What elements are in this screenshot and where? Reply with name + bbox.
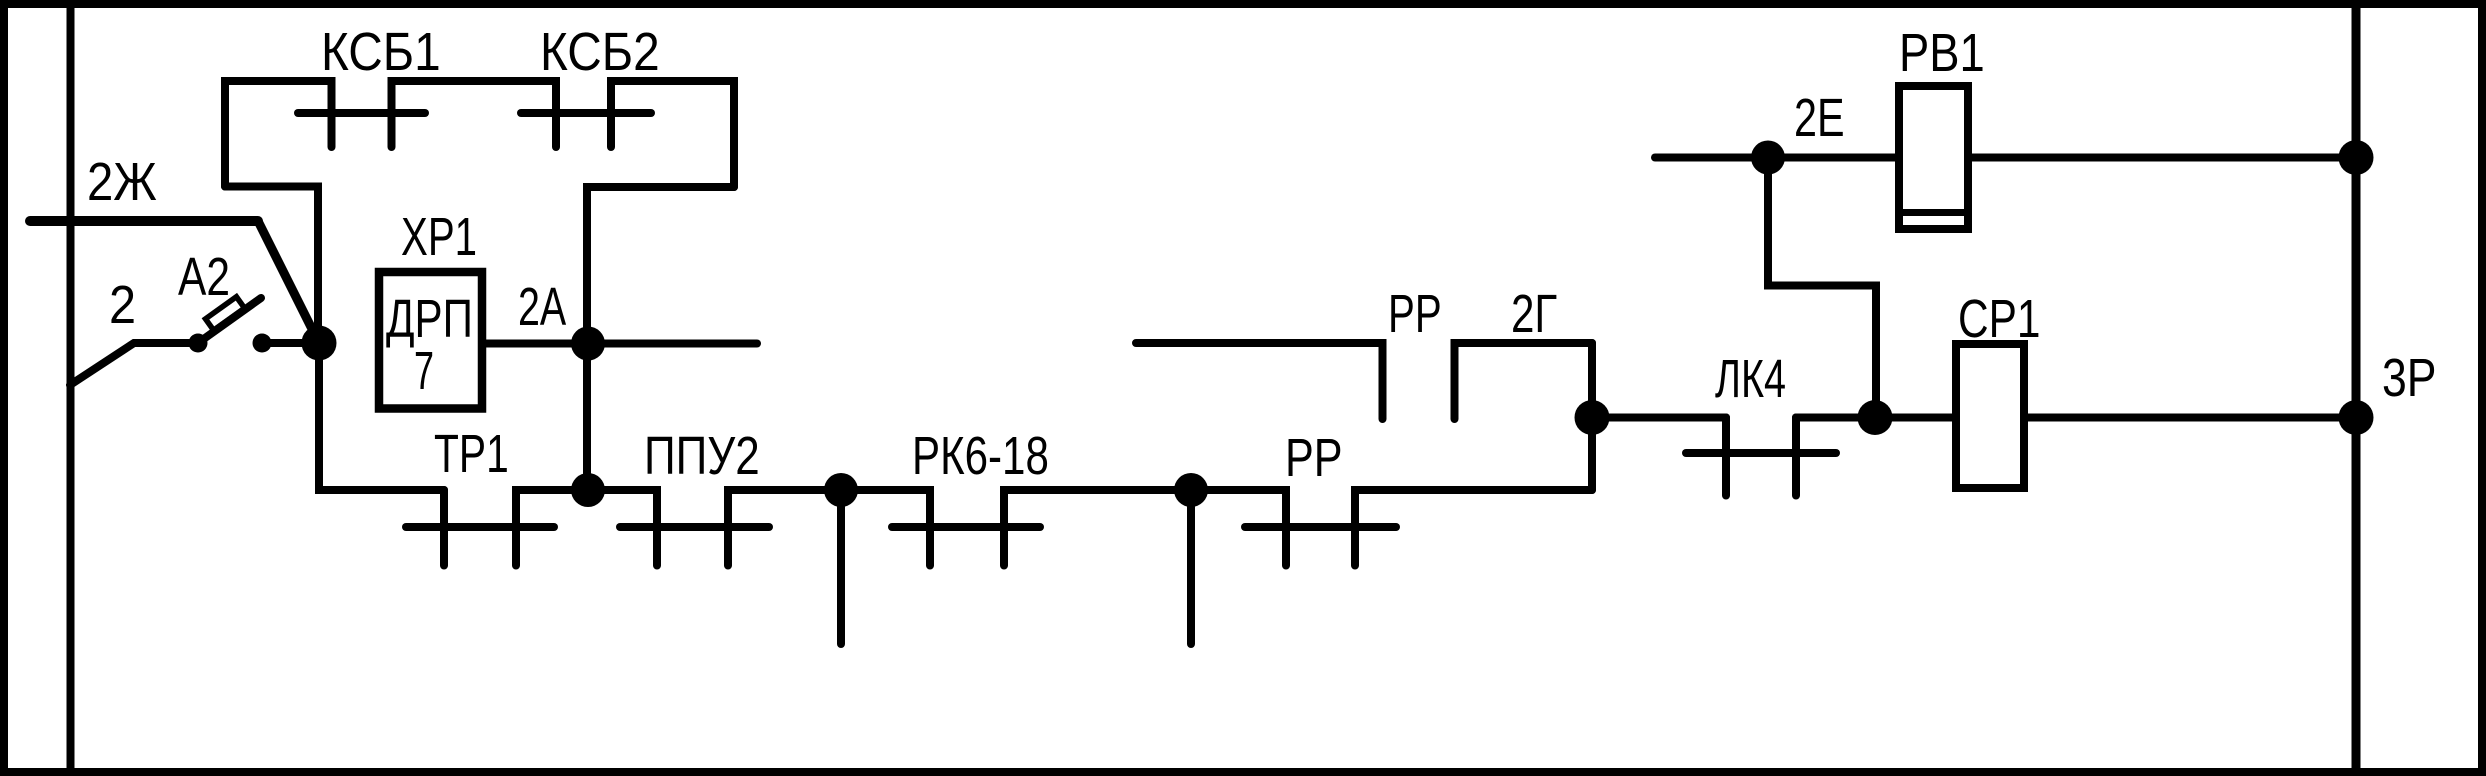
wire: node to СР1 <box>1875 414 1956 422</box>
contact РК6-18 rail and left bar <box>841 490 930 566</box>
contact ППУ2 rail from node and left bar <box>588 490 657 566</box>
node ППУ2/РК6-18 <box>824 473 858 507</box>
svg-text:РВ1: РВ1 <box>1899 22 1985 83</box>
svg-text:2Е: 2Е <box>1794 88 1845 149</box>
wire: ЛК4 to node <box>1796 414 1875 422</box>
contact ЛК4 right bar <box>1792 418 1800 496</box>
contact ППУ2 midline <box>620 523 769 531</box>
wire: diagonal from 2Ж to node <box>258 221 319 343</box>
contact РР top left rail and bar <box>1136 343 1383 419</box>
svg-text:РР: РР <box>1285 429 1343 489</box>
node ЛК4/СР1 <box>1858 400 1893 435</box>
node 3Р <box>2339 400 2374 435</box>
svg-text:А2: А2 <box>178 247 230 307</box>
svg-text:ТР1: ТР1 <box>434 425 509 485</box>
svg-text:2Г: 2Г <box>1511 284 1557 344</box>
wire: right bus vertical 3Р rail <box>2352 8 2361 768</box>
contact РК6-18 right bar and rail <box>1004 490 1191 566</box>
svg-text:3Р: 3Р <box>2382 348 2436 408</box>
wire: jog from node 2Е down to ЛК4 node <box>1768 158 1876 418</box>
svg-text:РР: РР <box>1388 284 1442 344</box>
coil РВ1 box <box>1899 86 1968 229</box>
wire: vertical from node down to bottom rail <box>319 343 444 490</box>
wire: bridge right step down to node 2А <box>587 187 734 344</box>
contact РР top right bar and 2Г rail <box>1455 343 1593 419</box>
wire: switch right stub <box>262 339 310 347</box>
wire: riser 2Г rail junction <box>1588 343 1596 490</box>
wire: left bus vertical <box>67 8 75 768</box>
wire 2Е horizontal left stub <box>1655 154 1899 162</box>
wire: vertical through node 2А down to bottom rail <box>583 344 591 490</box>
switch dot left <box>189 334 208 353</box>
svg-text:2: 2 <box>109 274 136 335</box>
switch A2 breaker rectangle <box>205 297 244 330</box>
svg-text:КСБ1: КСБ1 <box>321 21 441 81</box>
wire 2Ж horizontal <box>30 216 258 226</box>
contact ЛК4 midline <box>1686 449 1836 457</box>
contact ППУ2 right bar and rail <box>728 490 841 566</box>
contactor КСБ2 right bar and right leg <box>611 81 734 187</box>
contact РК6-18 midline <box>892 523 1040 531</box>
wire: bridge left step down to node <box>225 187 318 345</box>
svg-text:РК6-18: РК6-18 <box>912 426 1049 486</box>
wire: box ХР1 to node 2А <box>482 340 588 348</box>
contact РР bottom rail and left bar <box>1191 490 1286 566</box>
node ТР1/ППУ2 <box>571 473 605 507</box>
wire: switch lead from left bus <box>70 343 198 385</box>
contact ЛК4 left bar <box>1722 418 1730 496</box>
node 2Г junction <box>1575 400 1610 435</box>
switch dot right <box>253 334 272 353</box>
svg-text:КСБ2: КСБ2 <box>540 21 660 81</box>
svg-text:ЛК4: ЛК4 <box>1715 349 1786 409</box>
node РК6-18/РР <box>1174 473 1208 507</box>
wire: stub below node at 1191 <box>1187 490 1195 644</box>
node РВ1/right rail <box>2339 140 2374 175</box>
node 2А <box>571 327 605 361</box>
wire: РВ1 to right rail <box>1968 154 2356 162</box>
contact ТР1 midline <box>406 523 554 531</box>
node junction switch/2Ж <box>302 326 337 361</box>
wire: node 2Г to ЛК4 <box>1592 414 1726 422</box>
contact ТР1 left bar <box>440 490 448 566</box>
coil РВ1 time-delay line <box>1896 209 1971 216</box>
svg-text:2Ж: 2Ж <box>87 151 157 212</box>
svg-text:СР1: СР1 <box>1958 289 2040 349</box>
coil СР1 box <box>1956 344 2024 488</box>
contact РР bottom right bar and rail to riser <box>1355 490 1592 566</box>
contact РР bottom midline <box>1245 523 1396 531</box>
contactor КСБ2 midline <box>521 109 651 117</box>
svg-text:ППУ2: ППУ2 <box>644 426 760 486</box>
svg-text:ХР1: ХР1 <box>401 207 477 267</box>
contactor КСБ1 left leg <box>225 81 332 187</box>
wire: 2А stub right <box>588 340 757 348</box>
wire: stub below node at 841 <box>837 490 845 644</box>
contact ТР1 right bar and rail to node <box>516 490 588 566</box>
box ХР1 ДРП <box>379 272 482 409</box>
svg-text:7: 7 <box>414 340 434 401</box>
svg-text:2А: 2А <box>518 277 567 338</box>
contactor КСБ1 right bar / top rail middle / КСБ2 left bar <box>392 81 557 147</box>
contactor КСБ1 midline <box>298 109 425 117</box>
switch A2 blade <box>198 298 261 343</box>
node 2Е <box>1751 141 1785 175</box>
wire: СР1 to node 3Р <box>2024 414 2356 422</box>
